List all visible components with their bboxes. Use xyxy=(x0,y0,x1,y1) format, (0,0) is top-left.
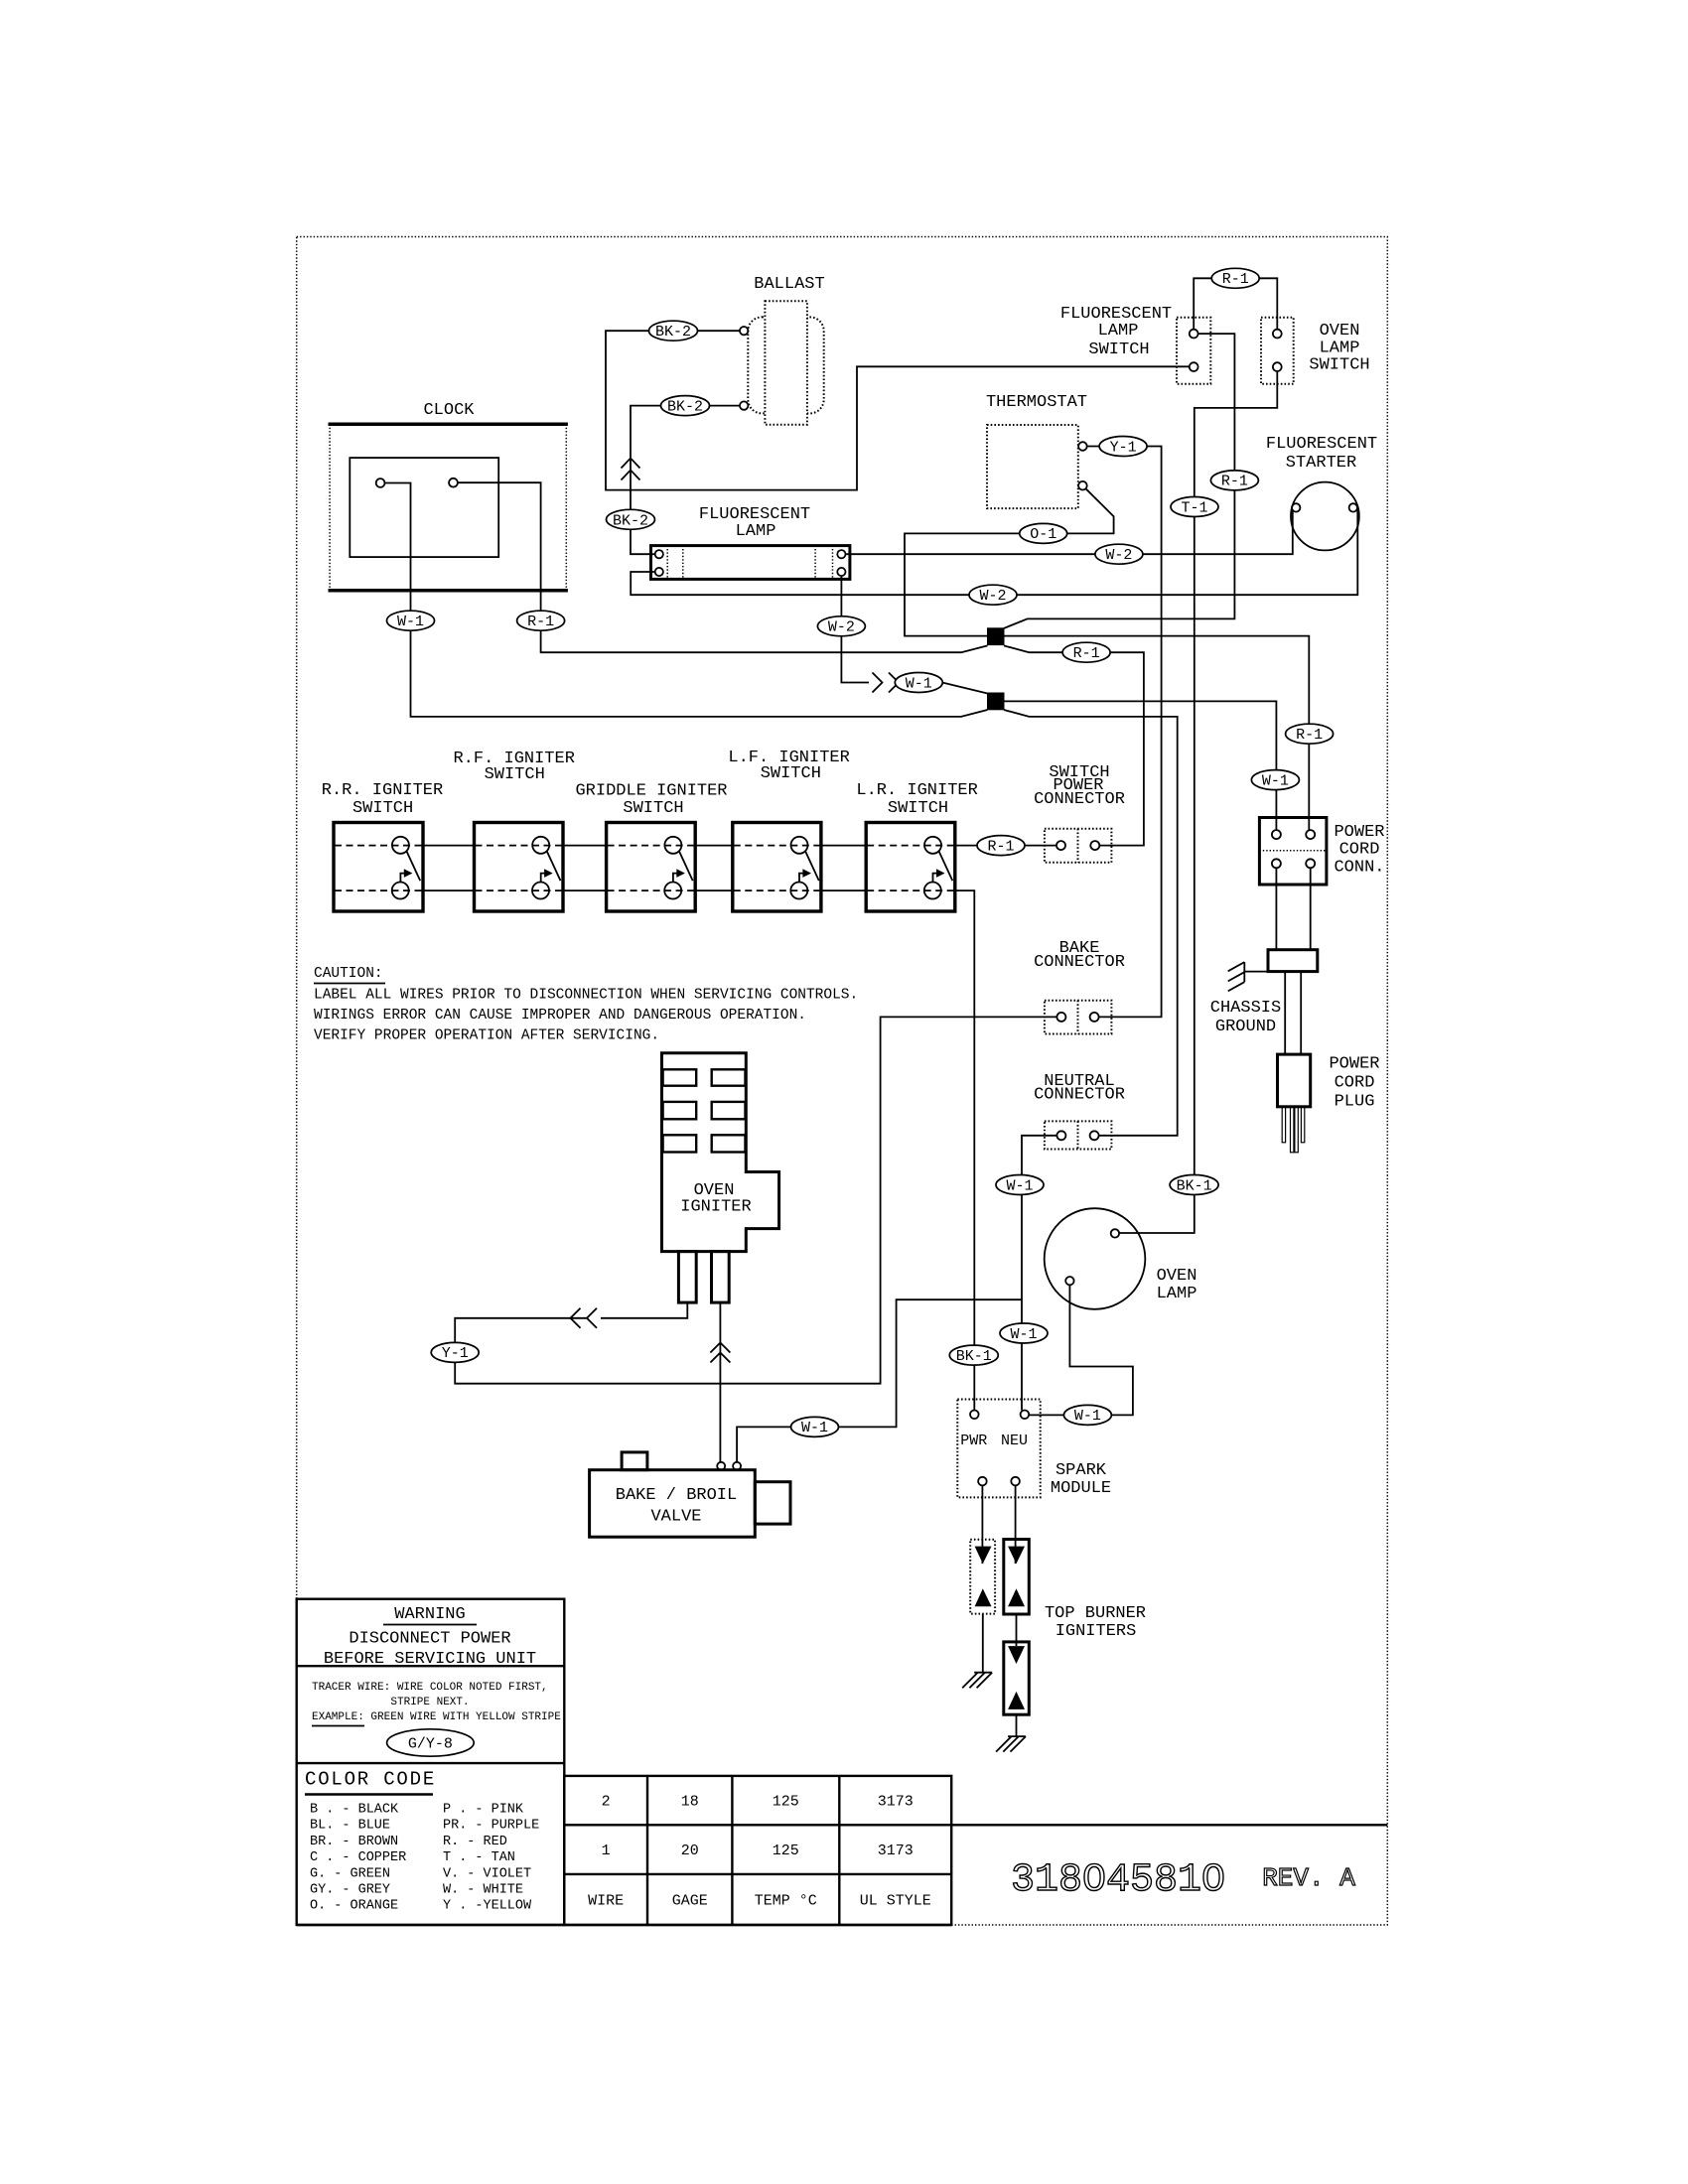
wire spark module outputs to top burner igniters xyxy=(981,1485,983,1564)
wire oven igniter left leg Y-1 xyxy=(601,1302,687,1318)
wire clock R-1 to junction1 xyxy=(458,482,988,652)
svg-text:PWR: PWR xyxy=(960,1433,987,1449)
svg-text:W. - WHITE: W. - WHITE xyxy=(443,1883,523,1898)
color code table COLOR CODE xyxy=(305,1769,539,1914)
wire label W-2 (below lamp) xyxy=(817,616,865,636)
svg-text:W-1: W-1 xyxy=(1262,772,1289,789)
svg-text:EXAMPLE: GREEN WIRE WITH YELLO: EXAMPLE: GREEN WIRE WITH YELLOW STRIPE xyxy=(312,1711,561,1723)
svg-text:GRIDDLE IGNITER: GRIDDLE IGNITER xyxy=(575,782,727,801)
oven lamp switch OVEN LAMP SWITCH xyxy=(1261,318,1370,384)
top burner igniter 1 xyxy=(970,1540,995,1614)
wire ballast BK-2 lower to fluorescent lamp xyxy=(631,406,740,555)
wire label W-1 (neutral bus upper) xyxy=(996,1175,1044,1195)
wire label BK-2 (ballast bottom) xyxy=(661,396,710,416)
svg-text:R.R. IGNITER: R.R. IGNITER xyxy=(322,781,443,800)
svg-text:CONN.: CONN. xyxy=(1334,859,1384,878)
junction node 1 (R-1) xyxy=(987,627,1005,645)
wire lamp right-bottom W-2 to W-1 junction2 xyxy=(841,576,869,682)
svg-text:BK-2: BK-2 xyxy=(613,512,648,529)
svg-text:1: 1 xyxy=(602,1843,611,1859)
switch L.F. igniter switch xyxy=(733,823,821,912)
svg-text:W-1: W-1 xyxy=(906,675,932,692)
oven lamp OVEN LAMP xyxy=(1045,1208,1197,1309)
svg-text:POWER: POWER xyxy=(1334,823,1384,842)
svg-text:STARTER: STARTER xyxy=(1286,454,1356,473)
svg-text:UL STYLE: UL STYLE xyxy=(860,1893,931,1910)
wire label W-2 (lamp upper) xyxy=(1095,544,1143,564)
svg-text:W-1: W-1 xyxy=(397,614,424,630)
svg-text:G/Y-8: G/Y-8 xyxy=(408,1736,453,1753)
wire junction1 lower-right R-1 to switch power connector xyxy=(1004,645,1144,845)
wire ballast BK-2 upper to fluorescent lamp switch xyxy=(606,331,1190,489)
svg-text:GAGE: GAGE xyxy=(672,1893,708,1910)
svg-text:CORD: CORD xyxy=(1339,841,1380,860)
caution note text xyxy=(314,966,858,1043)
svg-text:LABEL ALL WIRES PRIOR TO DISCO: LABEL ALL WIRES PRIOR TO DISCONNECTION W… xyxy=(314,988,858,1004)
wire junction1 right to power cord conn R-1 xyxy=(1004,636,1309,831)
svg-text:20: 20 xyxy=(681,1843,699,1859)
svg-text:PR. - PURPLE: PR. - PURPLE xyxy=(443,1819,539,1834)
svg-text:SWITCH: SWITCH xyxy=(485,765,545,784)
svg-text:R-1: R-1 xyxy=(1296,727,1323,744)
switch power connector SWITCH POWER CONNECTOR xyxy=(1034,763,1125,863)
svg-text:T . - TAN: T . - TAN xyxy=(443,1850,515,1865)
svg-text:CONNECTOR: CONNECTOR xyxy=(1034,953,1125,972)
wire thermostat O-1 to junction1 xyxy=(905,488,1114,635)
svg-text:BK-2: BK-2 xyxy=(667,399,703,416)
neutral connector NEUTRAL CONNECTOR xyxy=(1034,1072,1125,1150)
sheet border xyxy=(297,237,1388,1926)
svg-text:OVEN: OVEN xyxy=(1320,322,1360,341)
wire oven igniter right leg to bake/broil valve xyxy=(719,1302,721,1461)
wire switch bottom bus segments xyxy=(423,889,475,891)
svg-text:POWER: POWER xyxy=(1329,1055,1379,1074)
wire bake connector left Y-1 to oven igniter xyxy=(455,1017,1056,1383)
svg-text:C . - COPPER: C . - COPPER xyxy=(310,1850,406,1865)
power cord plug prongs xyxy=(1282,1107,1305,1153)
svg-text:BEFORE SERVICING UNIT: BEFORE SERVICING UNIT xyxy=(324,1650,536,1669)
svg-text:CONNECTOR: CONNECTOR xyxy=(1034,790,1125,809)
chassis ground symbol xyxy=(1228,962,1268,991)
svg-text:REV. A: REV. A xyxy=(1262,1863,1355,1893)
wire continuation chevrons up xyxy=(710,1343,730,1353)
wire label W-1 (valve) xyxy=(791,1417,839,1436)
wire label BK-2 (ballast top) xyxy=(649,321,698,341)
wire label T-1 xyxy=(1171,497,1218,517)
power cord connector POWER CORD CONN. xyxy=(1259,818,1384,886)
bake/broil valve BAKE / BROIL VALVE xyxy=(590,1452,790,1537)
svg-text:SWITCH: SWITCH xyxy=(1088,341,1149,359)
svg-text:LAMP: LAMP xyxy=(736,522,776,541)
svg-text:CONNECTOR: CONNECTOR xyxy=(1034,1086,1125,1105)
top burner igniter 2 xyxy=(1004,1540,1030,1615)
wire thermostat Y-1 to bake connector xyxy=(1087,447,1162,1018)
svg-text:WIRINGS ERROR CAN CAUSE IMPROP: WIRINGS ERROR CAN CAUSE IMPROPER AND DAN… xyxy=(314,1008,806,1024)
warning box WARNING xyxy=(297,1599,565,1925)
wire igniter2 to igniter3 xyxy=(1016,1614,1018,1646)
svg-text:O. - ORANGE: O. - ORANGE xyxy=(310,1899,398,1914)
svg-text:L.R. IGNITER: L.R. IGNITER xyxy=(856,781,977,800)
wire label Y-1 (oven igniter) xyxy=(431,1342,479,1362)
svg-text:OVEN: OVEN xyxy=(1157,1267,1197,1286)
wire label W-1 (junction2 feed) xyxy=(895,673,942,693)
svg-text:T-1: T-1 xyxy=(1181,499,1207,516)
svg-text:W-1: W-1 xyxy=(801,1420,828,1436)
ballast BALLAST xyxy=(740,275,825,425)
wire igniter1 to ground xyxy=(982,1614,984,1673)
svg-text:GROUND: GROUND xyxy=(1215,1018,1276,1036)
wire continuation chevrons >> xyxy=(873,673,883,693)
svg-text:SWITCH: SWITCH xyxy=(623,799,683,818)
svg-text:PLUG: PLUG xyxy=(1335,1093,1375,1112)
switch L.R. igniter switch xyxy=(866,823,955,912)
svg-text:3173: 3173 xyxy=(878,1794,914,1811)
wire continuation chevrons << xyxy=(571,1308,581,1328)
svg-text:BK-2: BK-2 xyxy=(655,324,691,341)
wire label R-1 (to power cord conn) xyxy=(1286,724,1334,744)
svg-text:W-1: W-1 xyxy=(1010,1326,1037,1343)
svg-text:R-1: R-1 xyxy=(987,838,1014,855)
svg-text:TEMP °C: TEMP °C xyxy=(755,1893,817,1910)
svg-text:IGNITERS: IGNITERS xyxy=(1055,1622,1137,1641)
title strip line xyxy=(564,1824,1387,1826)
bake connector BAKE CONNECTOR xyxy=(1034,939,1125,1034)
wire label Y-1 (thermostat) xyxy=(1099,437,1147,457)
wire lamp right-top W-2 to starter left xyxy=(846,511,1293,555)
wire switch top bus segments xyxy=(423,845,475,847)
svg-text:CAUTION:: CAUTION: xyxy=(314,966,383,982)
wire label BK-1 (oven lamp) xyxy=(1170,1175,1218,1195)
fluorescent starter FLUORESCENT STARTER xyxy=(1266,435,1377,550)
svg-text:VERIFY PROPER OPERATION AFTER: VERIFY PROPER OPERATION AFTER SERVICING. xyxy=(314,1027,659,1043)
svg-text:2: 2 xyxy=(602,1794,611,1811)
wire junction2 lower-right W-1 to neutral connector xyxy=(1004,710,1178,1136)
svg-text:BK-1: BK-1 xyxy=(1177,1177,1212,1194)
wire strain relief to power cord plug xyxy=(1284,972,1286,1055)
svg-text:3173: 3173 xyxy=(878,1843,914,1859)
wire OLS bottom T-1/BK-1 long vertical to oven lamp xyxy=(1119,371,1277,1233)
svg-text:VALVE: VALVE xyxy=(650,1508,701,1527)
thermostat THERMOSTAT xyxy=(986,393,1087,508)
wire label BK-1 (spark PWR) xyxy=(949,1345,998,1365)
switch R.F. igniter switch xyxy=(475,823,564,912)
wire label W-1 (neutral bus lower) xyxy=(1000,1323,1048,1343)
svg-text:SWITCH: SWITCH xyxy=(1309,356,1369,375)
svg-text:W-2: W-2 xyxy=(828,619,855,636)
svg-text:125: 125 xyxy=(773,1843,799,1859)
svg-text:O-1: O-1 xyxy=(1030,526,1056,543)
svg-text:BL. - BLUE: BL. - BLUE xyxy=(310,1819,390,1834)
svg-text:R-1: R-1 xyxy=(527,614,554,630)
wire label R-1 (clock) xyxy=(517,611,565,630)
wire junction2 right to power cord conn W-1 xyxy=(1004,701,1276,830)
svg-text:Y . -YELLOW: Y . -YELLOW xyxy=(443,1899,532,1914)
wire lamp left-bottom W-2 long line to starter right xyxy=(631,510,1357,595)
svg-text:SPARK: SPARK xyxy=(1055,1461,1107,1480)
svg-text:BALLAST: BALLAST xyxy=(754,275,824,294)
junction node 2 (W-1) xyxy=(987,693,1005,711)
svg-text:WARNING: WARNING xyxy=(394,1605,465,1624)
svg-text:NEU: NEU xyxy=(1001,1433,1028,1449)
wire label W-2 (lamp lower) xyxy=(969,585,1017,605)
wire clock W-1 to junction2 xyxy=(385,483,988,717)
spark module SPARK MODULE xyxy=(957,1400,1111,1499)
wire label O-1 xyxy=(1020,523,1067,543)
wire label BK-2 (lamp feed) xyxy=(607,509,655,529)
wire L.R. switch BK-1 to spark module PWR xyxy=(955,890,975,1411)
wire igniter3 to ground xyxy=(1016,1714,1018,1736)
svg-text:G. - GREEN: G. - GREEN xyxy=(310,1866,390,1881)
strain relief block xyxy=(1268,950,1318,972)
svg-text:MODULE: MODULE xyxy=(1051,1479,1111,1498)
svg-text:BAKE / BROIL: BAKE / BROIL xyxy=(616,1486,737,1505)
svg-text:BK-1: BK-1 xyxy=(956,1348,992,1365)
ground symbol 2 xyxy=(996,1736,1026,1752)
wire label R-1 (switch row) xyxy=(977,836,1025,856)
svg-text:V. - VIOLET: V. - VIOLET xyxy=(443,1866,531,1881)
svg-text:W-1: W-1 xyxy=(1006,1177,1033,1194)
svg-text:W-2: W-2 xyxy=(979,588,1006,605)
switch R.R. igniter switch xyxy=(334,823,423,912)
svg-text:THERMOSTAT: THERMOSTAT xyxy=(986,393,1087,412)
wire R-1 arc between lamp switches xyxy=(1194,278,1277,329)
wire oven lamp W-1 to spark module NEU xyxy=(1029,1285,1133,1415)
fluorescent lamp FLUORESCENT LAMP xyxy=(651,505,850,579)
wire label W-1 (spark NEU) xyxy=(1063,1405,1111,1425)
wire power cord conn to strain relief xyxy=(1275,868,1277,949)
svg-text:SWITCH: SWITCH xyxy=(888,799,948,818)
svg-text:Y-1: Y-1 xyxy=(442,1345,469,1362)
wire valve W-1 to neutral bus xyxy=(737,1299,1022,1462)
svg-text:BR. - BROWN: BR. - BROWN xyxy=(310,1835,398,1849)
svg-text:WIRE: WIRE xyxy=(588,1893,624,1910)
svg-text:DISCONNECT POWER: DISCONNECT POWER xyxy=(349,1630,510,1649)
power cord plug POWER CORD PLUG xyxy=(1278,1054,1380,1111)
svg-text:R-1: R-1 xyxy=(1222,271,1249,288)
ground symbol 1 xyxy=(962,1673,992,1689)
wire label R-1 (switch drop) xyxy=(1210,471,1258,490)
svg-text:18: 18 xyxy=(681,1794,699,1811)
svg-text:COLOR CODE: COLOR CODE xyxy=(305,1769,436,1791)
svg-text:LAMP: LAMP xyxy=(1098,322,1139,341)
wire spec table xyxy=(564,1776,951,1925)
wire label W-1 (clock) xyxy=(387,611,435,630)
svg-text:STRIPE NEXT.: STRIPE NEXT. xyxy=(390,1697,469,1708)
top burner igniter 3 xyxy=(1004,1642,1030,1714)
svg-text:FLUORESCENT: FLUORESCENT xyxy=(1266,435,1377,454)
svg-text:P . - PINK: P . - PINK xyxy=(443,1803,524,1818)
svg-text:SWITCH: SWITCH xyxy=(761,764,821,783)
wire label W-1 (to power cord conn) xyxy=(1251,770,1299,790)
svg-text:B . - BLACK: B . - BLACK xyxy=(310,1803,399,1818)
svg-text:Y-1: Y-1 xyxy=(1110,439,1137,456)
svg-text:R-1: R-1 xyxy=(1073,645,1100,662)
svg-text:IGNITER: IGNITER xyxy=(680,1198,751,1217)
svg-text:R. - RED: R. - RED xyxy=(443,1835,507,1849)
svg-text:W-2: W-2 xyxy=(1105,547,1132,564)
wire FLS top R-1 down to junction1 xyxy=(1004,334,1234,628)
svg-text:125: 125 xyxy=(773,1794,799,1811)
svg-text:CORD: CORD xyxy=(1335,1074,1375,1093)
svg-text:SWITCH: SWITCH xyxy=(352,799,413,818)
wire L.R. switch R-1 to switch power connector xyxy=(955,845,1057,847)
svg-text:W-1: W-1 xyxy=(1074,1408,1101,1425)
svg-text:318O4581O: 318O4581O xyxy=(1011,1858,1225,1903)
wire label R-1 (lamp switch arc) xyxy=(1211,268,1259,288)
fluorescent lamp switch FLUORESCENT LAMP SWITCH xyxy=(1060,305,1210,384)
svg-text:R-1: R-1 xyxy=(1221,474,1248,490)
svg-text:TRACER WIRE: WIRE COLOR NOTED: TRACER WIRE: WIRE COLOR NOTED FIRST, xyxy=(312,1682,548,1694)
svg-text:GY. - GREY: GY. - GREY xyxy=(310,1883,390,1898)
wire label R-1 (to switch power connector) xyxy=(1062,642,1110,662)
switch griddle igniter switch xyxy=(607,823,696,912)
clock CLOCK xyxy=(329,401,568,591)
svg-text:CLOCK: CLOCK xyxy=(423,401,475,420)
oven igniter OVEN IGNITER xyxy=(662,1053,779,1302)
wire neutral connector left W-1 to spark module NEU xyxy=(1022,1136,1056,1411)
svg-text:CHASSIS: CHASSIS xyxy=(1210,999,1281,1018)
wire jump chevrons on BK-2 vertical xyxy=(622,459,640,469)
svg-text:LAMP: LAMP xyxy=(1157,1285,1197,1303)
svg-text:TOP BURNER: TOP BURNER xyxy=(1045,1604,1146,1623)
